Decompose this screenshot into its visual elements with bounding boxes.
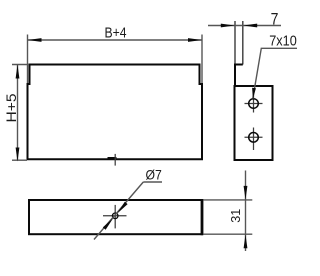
- dimension H+5 extension bottom: [12, 159, 27, 161]
- side view flange rectangle: [235, 86, 273, 160]
- hole H1 circle: [249, 99, 259, 109]
- dimension B+4 extension line left: [27, 35, 29, 84]
- hole crosshair H2 vertical: [253, 128, 255, 151]
- front view cover outline: [28, 65, 203, 160]
- tab on bottom edge: [108, 157, 117, 159]
- leader diameter 7 diagonal: [94, 182, 143, 240]
- dimension H+5 extension top: [12, 64, 29, 66]
- center tick bottom edge: [114, 154, 116, 166]
- leader diameter 7 arrow upper: [117, 202, 128, 214]
- svg-text:Ø7: Ø7: [146, 167, 162, 183]
- dimension 7 arrow left: [221, 24, 235, 28]
- svg-text:7: 7: [271, 9, 279, 28]
- dimension B+4 line: [28, 39, 203, 41]
- leader diameter 7 shoulder: [143, 181, 162, 183]
- svg-text:31: 31: [229, 209, 243, 223]
- side view web edge: [234, 65, 236, 87]
- side view upper strip left edge: [234, 21, 236, 65]
- hole crosshair H2 horizontal: [245, 136, 263, 138]
- svg-text:7x10: 7x10: [269, 33, 297, 50]
- svg-text:B+4: B+4: [105, 25, 127, 42]
- leader 7x10: [253, 48, 297, 98]
- hole H2 circle: [249, 133, 259, 143]
- dimension B+4 arrow left: [28, 38, 42, 42]
- dimension 31 arrow bottom: [244, 234, 248, 248]
- hole crosshair H1 vertical: [253, 94, 255, 113]
- dimension 31 line: [245, 171, 247, 252]
- dimension 31 extension top: [204, 199, 253, 201]
- side view upper strip right edge: [242, 21, 244, 65]
- dimension 31 arrow top: [244, 186, 248, 200]
- strip hole crosshair horizontal: [103, 215, 127, 217]
- dimension H+5 arrow down: [16, 148, 20, 162]
- strip hole crosshair vertical: [114, 205, 116, 229]
- dimension H+5 line: [17, 65, 19, 161]
- bottom view strip outline: [29, 200, 202, 234]
- svg-text:H+5: H+5: [3, 93, 19, 122]
- dimension B+4 extension line right: [201, 35, 203, 84]
- side view step: [234, 64, 243, 66]
- leader diameter 7 arrow lower: [103, 218, 114, 230]
- dimension 31 extension bottom: [204, 233, 253, 235]
- hole crosshair H1 horizontal: [245, 103, 263, 105]
- dimension H+5 arrow up: [16, 65, 20, 79]
- dimension B+4 arrow right: [188, 38, 202, 42]
- dimension 7 arrow right: [243, 24, 257, 28]
- strip hole circle: [112, 213, 118, 219]
- dimension 7 line: [208, 25, 281, 27]
- bottom view strip right end thick edge: [201, 199, 204, 235]
- leader 7x10 arrow: [252, 88, 256, 99]
